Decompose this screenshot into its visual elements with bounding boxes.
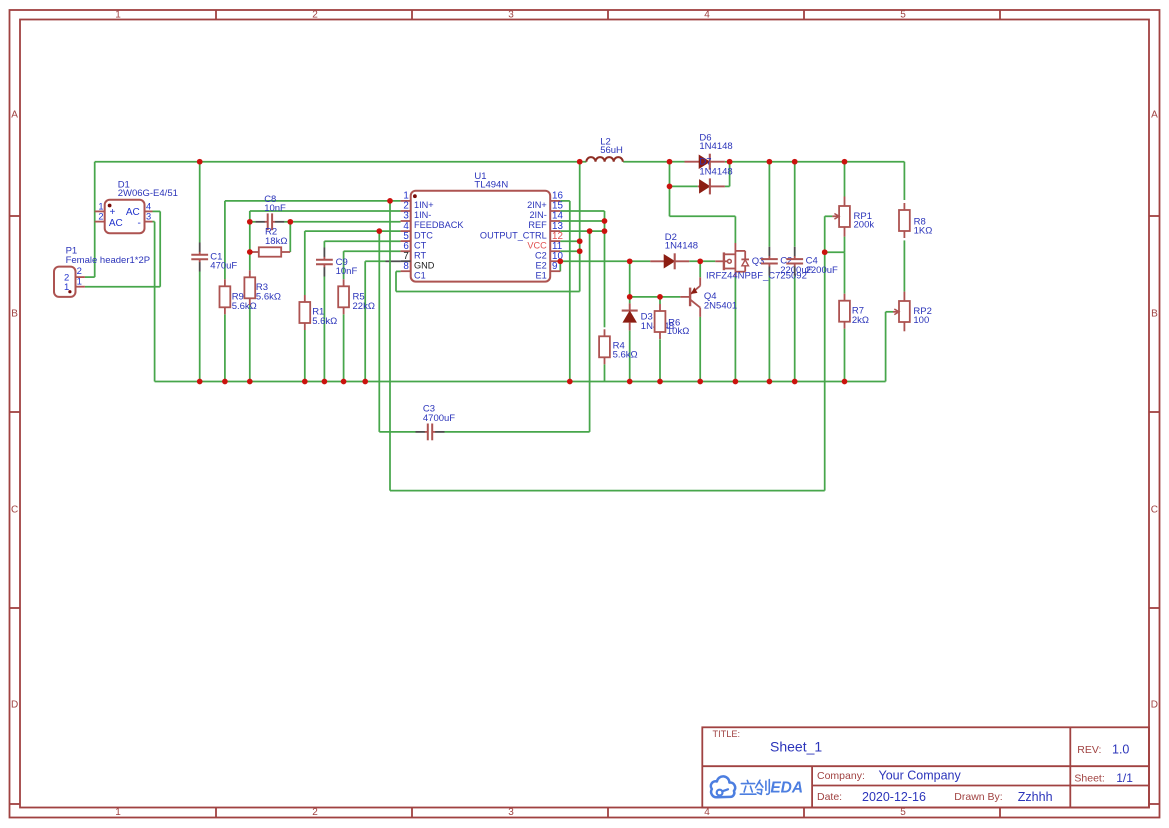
wire top rail right corner to R8 [903, 162, 905, 200]
wire AC input left drop to P1 pin2 [85, 162, 95, 277]
svg-text:A: A [1151, 110, 1158, 121]
svg-text:2W06G-E4/51: 2W06G-E4/51 [118, 188, 178, 199]
wire C3 link [379, 231, 589, 432]
capacitor C3 [416, 424, 445, 441]
diode D2 [650, 253, 689, 269]
node gnd C2 [767, 379, 773, 385]
svg-text:8: 8 [403, 261, 409, 272]
resistor R9 [220, 279, 231, 314]
svg-text:10nF: 10nF [264, 203, 286, 214]
node C2 top [767, 159, 773, 165]
svg-text:1: 1 [98, 201, 103, 211]
svg-text:2020-12-16: 2020-12-16 [862, 790, 926, 804]
wire U1 pin5 net CT [324, 240, 400, 242]
wire P1 pin1 to D1 pin4 [85, 211, 160, 286]
svg-text:4700uF: 4700uF [423, 413, 455, 424]
wire R5 bottom [343, 314, 345, 381]
svg-text:RT: RT [414, 250, 426, 260]
svg-text:C1: C1 [414, 270, 426, 280]
node D2 anode branch [627, 258, 633, 264]
wire switch node to Q3 drain [670, 186, 736, 243]
wire R1 top [304, 231, 306, 295]
svg-text:4: 4 [704, 807, 710, 818]
svg-text:AC: AC [109, 218, 123, 229]
svg-text:OUTPUT_CTRL: OUTPUT_CTRL [480, 230, 547, 240]
wire Q4 emitter up [699, 261, 701, 277]
resistor R6 [655, 304, 666, 339]
wire R3 bottom [249, 305, 251, 381]
svg-text:5.6kΩ: 5.6kΩ [256, 291, 281, 302]
svg-text:D: D [11, 700, 18, 711]
node OC-R4 [602, 228, 608, 234]
wire bottom ground rail [155, 312, 893, 382]
svg-text:1: 1 [77, 276, 82, 287]
wire D7 cathode up [725, 162, 730, 187]
svg-text:5: 5 [900, 807, 906, 818]
wire U1 pin13 OUTPUT_CTRL [560, 230, 604, 232]
svg-text:Q3: Q3 [752, 256, 765, 267]
svg-text:D: D [1151, 700, 1158, 711]
svg-text:EDA: EDA [770, 780, 803, 797]
U1 origin dot [413, 194, 417, 198]
svg-text:REV:: REV: [1077, 744, 1101, 756]
svg-text:1: 1 [64, 282, 69, 293]
resistor R3 [244, 270, 255, 305]
node R6 top [657, 294, 663, 300]
svg-text:Sheet_1: Sheet_1 [770, 739, 822, 755]
wire C9 bottom [323, 277, 325, 382]
label Q4 [704, 291, 737, 312]
node C8 right [287, 219, 293, 225]
U1 pin names [414, 200, 547, 280]
svg-text:Drawn By:: Drawn By: [954, 791, 1002, 803]
label R5 [353, 292, 375, 312]
wire C4 top [794, 162, 796, 247]
label D6 [699, 133, 732, 152]
label R7 [852, 306, 869, 326]
wire top supply rail [95, 161, 905, 163]
label P1 [66, 246, 151, 267]
wire R8 to RP2 [903, 240, 905, 291]
svg-text:2kΩ: 2kΩ [852, 315, 869, 326]
wire node x250 C8-R2 [249, 222, 251, 270]
wire C1 top branch [199, 162, 201, 243]
node feedback pin1 [387, 198, 393, 204]
wire D3 top stub [629, 297, 631, 304]
diode D3 [622, 303, 638, 330]
svg-text:22kΩ: 22kΩ [353, 301, 375, 312]
wire D7 branch [670, 185, 698, 187]
svg-text:TL494N: TL494N [474, 180, 508, 191]
svg-text:1N4148: 1N4148 [665, 240, 698, 251]
label C8 [264, 194, 286, 214]
svg-text:Date:: Date: [817, 791, 842, 803]
label D7 value [699, 166, 732, 177]
wire R9 top [224, 201, 226, 279]
svg-text:2IN-: 2IN- [529, 210, 546, 220]
wire R7 bottom [844, 329, 846, 382]
connector P1 [54, 266, 85, 297]
node gnd R9 [222, 379, 228, 385]
capacitor C9 [316, 248, 333, 277]
resistor R7 [839, 294, 850, 329]
svg-text:CT: CT [414, 240, 427, 250]
svg-text:5.6kΩ: 5.6kΩ [232, 301, 257, 312]
svg-text:5.6kΩ: 5.6kΩ [613, 350, 638, 361]
node E2-E1 [557, 258, 563, 264]
svg-text:E2: E2 [536, 260, 547, 270]
wire C2 bottom [768, 276, 770, 382]
svg-text:1N4148: 1N4148 [699, 141, 732, 152]
svg-text:A: A [11, 110, 18, 121]
svg-text:C2: C2 [535, 250, 547, 260]
node gnd R5 [341, 379, 347, 385]
node gnd U1pin7 [362, 379, 368, 385]
wire U1 pin8 to VCC vertical [396, 271, 580, 291]
node gnd R1 [302, 379, 308, 385]
wire U1 pin16 2IN+ to rail [560, 201, 570, 382]
svg-text:1KΩ: 1KΩ [914, 225, 933, 236]
svg-text:REF: REF [528, 220, 547, 230]
label R9 [232, 292, 257, 312]
transistor Q3 MOSFET [715, 243, 749, 277]
svg-text:4: 4 [704, 10, 710, 21]
svg-text:56uH: 56uH [600, 145, 623, 156]
wire R5 top [343, 251, 345, 279]
node gnd Q3 [733, 379, 739, 385]
wire R1 bottom [304, 330, 306, 382]
wire RP1 top [844, 162, 846, 197]
svg-text:1: 1 [115, 807, 121, 818]
svg-text:Your Company: Your Company [879, 769, 962, 783]
svg-text:Zzhhh: Zzhhh [1018, 790, 1053, 804]
node R2 left [247, 249, 253, 255]
node gnd D3 [627, 379, 633, 385]
svg-text:B: B [1151, 309, 1158, 320]
svg-text:1IN+: 1IN+ [414, 200, 434, 210]
U1 pin numbers [403, 191, 563, 272]
wire U1 pin7 GND to rail [365, 261, 385, 381]
wire feedback loop [390, 201, 832, 491]
wire D3 bottom [629, 330, 631, 381]
wire U1 pin15 2IN- to R4 [560, 211, 604, 327]
wire D3 Q4 base drop [629, 261, 631, 297]
node gnd R3 [247, 379, 253, 385]
node C2 pin11 [577, 248, 583, 254]
node gnd R6 [657, 379, 663, 385]
node D3 top [627, 294, 633, 300]
wire U1 pin6 net RT [344, 250, 401, 252]
title block texts [713, 729, 1134, 804]
wire D1 pin3 to ground rail [153, 222, 155, 382]
svg-text:200k: 200k [854, 220, 875, 231]
label R2 [265, 227, 287, 247]
node gnd R7 [842, 379, 848, 385]
svg-text:C: C [11, 505, 18, 516]
wire RP1 bottom jog [825, 237, 845, 253]
node gnd C1 [197, 379, 203, 385]
label R8 [914, 216, 933, 236]
svg-text:Sheet:: Sheet: [1074, 772, 1104, 784]
node D2 cathode Q4 [697, 258, 703, 264]
label RP1 [854, 211, 875, 231]
svg-text:3: 3 [508, 807, 514, 818]
wire R7 top [844, 252, 846, 294]
svg-text:FEEDBACK: FEEDBACK [414, 220, 464, 230]
svg-text:GND: GND [414, 260, 435, 270]
node C1 top [197, 159, 203, 165]
wire C8 stubs [250, 221, 290, 223]
wire Q4 base line [630, 296, 681, 298]
wire C4 bottom [794, 276, 796, 382]
svg-text:3: 3 [146, 211, 151, 221]
svg-text:Company:: Company: [817, 770, 865, 782]
svg-text:1.0: 1.0 [1112, 743, 1129, 757]
node REF-R4 [602, 218, 608, 224]
node C8 left [247, 219, 253, 225]
label L2 [600, 137, 623, 156]
label D1 [118, 180, 178, 199]
svg-text:18kΩ: 18kΩ [265, 236, 287, 247]
potentiometer RP2 [893, 292, 910, 332]
svg-text:-: - [137, 218, 140, 229]
wire D6 node down [669, 162, 671, 187]
svg-text:AC: AC [126, 207, 140, 218]
capacitor C8 [255, 213, 284, 230]
svg-text:5.6kΩ: 5.6kΩ [312, 316, 337, 327]
capacitor C1 [191, 243, 208, 272]
resistor R5 [338, 279, 349, 314]
label RP2 [913, 306, 931, 326]
logo LCEDA [711, 776, 769, 797]
svg-text:Female header1*2P: Female header1*2P [66, 255, 151, 266]
wire U1 pin9 E1 to E2 [559, 261, 561, 271]
wire U1 pin14 REF [560, 220, 604, 222]
wire C1 bottom branch [199, 272, 201, 382]
svg-text:2N5401: 2N5401 [704, 301, 737, 312]
wire VCC vertical [579, 162, 581, 292]
svg-text:9: 9 [552, 261, 557, 272]
wire C9 top [323, 241, 325, 247]
label D7 [699, 157, 711, 168]
diode D6 [685, 154, 725, 170]
node VCC rail [577, 159, 583, 165]
label R6 [667, 317, 689, 337]
label C1 [210, 251, 237, 271]
op-amp U1 TL494N body [411, 191, 551, 282]
node RP1 wiper [822, 249, 828, 255]
svg-text:+: + [110, 207, 116, 218]
U1 pin stubs [401, 201, 561, 271]
wire C2 top [768, 162, 770, 247]
label C3 [423, 403, 455, 423]
node gnd C9 [322, 379, 328, 385]
label R1 [312, 307, 337, 327]
svg-text:5: 5 [900, 10, 906, 21]
label R3 [256, 282, 281, 302]
node gnd C4 [792, 379, 798, 385]
label U1 [474, 171, 508, 190]
title block frame [702, 727, 1149, 807]
wire E2 line [560, 260, 715, 262]
svg-text:10kΩ: 10kΩ [667, 326, 689, 337]
bridge rectifier D1 [95, 200, 153, 233]
svg-text:4: 4 [146, 201, 151, 211]
svg-text:3: 3 [508, 10, 514, 21]
wire Q3 source down [734, 277, 736, 382]
svg-text:1IN-: 1IN- [414, 210, 431, 220]
node DTC-C3 [376, 228, 382, 234]
node D7 anode [667, 184, 673, 190]
label C2 [780, 255, 812, 276]
svg-text:2: 2 [312, 10, 318, 21]
diode D7 [698, 178, 725, 194]
capacitor C4 [786, 247, 803, 276]
potentiometer RP1 [832, 197, 849, 237]
svg-text:2200uF: 2200uF [806, 265, 838, 276]
label R4 [613, 340, 638, 360]
capacitor C2 [761, 247, 778, 276]
svg-text:1: 1 [115, 10, 121, 21]
svg-text:C: C [1151, 505, 1158, 516]
svg-text:1N4148: 1N4148 [699, 166, 732, 177]
svg-text:VCC: VCC [527, 240, 547, 250]
svg-text:DTC: DTC [414, 230, 433, 240]
wire GND gray segment [386, 260, 401, 262]
svg-text:100: 100 [913, 315, 929, 326]
wire R4 bottom [604, 364, 606, 381]
node gnd Q4 [697, 379, 703, 385]
node VCC pin12 [577, 238, 583, 244]
svg-text:10nF: 10nF [336, 266, 358, 277]
svg-text:2: 2 [312, 807, 318, 818]
label D2 [665, 232, 698, 251]
label C4 [806, 255, 838, 276]
label C9 [336, 257, 358, 277]
node D6 cathode [727, 159, 733, 165]
svg-text:TITLE:: TITLE: [713, 729, 741, 739]
node RP1 top [842, 159, 848, 165]
resistor R4 [599, 329, 610, 364]
wire U1 pin2 net 1IN- [250, 211, 401, 222]
node OUTPUT_CTRL-C3 [587, 228, 593, 234]
wire Q4 collector down [699, 317, 701, 382]
node gnd 2IN+ [567, 379, 573, 385]
svg-text:2IN+: 2IN+ [527, 200, 547, 210]
resistor R8 [899, 203, 910, 238]
resistor R1 [299, 295, 310, 330]
wire R6 bottom [659, 339, 661, 381]
wire U1 pin12 VCC stub [560, 240, 579, 242]
label Q3 [706, 256, 807, 281]
inductor L2 [586, 157, 622, 162]
node L2-D6 [667, 159, 673, 165]
wire OUTPUT_CTRL drop to C3 [589, 231, 591, 432]
svg-text:B: B [11, 309, 18, 320]
wire U1 pin11 C2 stub [560, 250, 579, 252]
svg-text:E1: E1 [536, 270, 547, 280]
resistor R2 [250, 247, 290, 256]
node C4 top [792, 159, 798, 165]
svg-text:1/1: 1/1 [1116, 771, 1133, 785]
wire R9 bottom [224, 314, 226, 381]
wire U1 pin3 net FEEDBACK [290, 222, 400, 252]
svg-text:2: 2 [98, 211, 103, 221]
label D3 [641, 311, 674, 332]
wire R6 top [659, 297, 661, 304]
wire U1 pin1 net 1IN+ [225, 200, 401, 202]
wire U1 pin4 net DTC [305, 230, 401, 232]
transistor Q4 [680, 277, 700, 317]
svg-text:470uF: 470uF [210, 261, 237, 272]
